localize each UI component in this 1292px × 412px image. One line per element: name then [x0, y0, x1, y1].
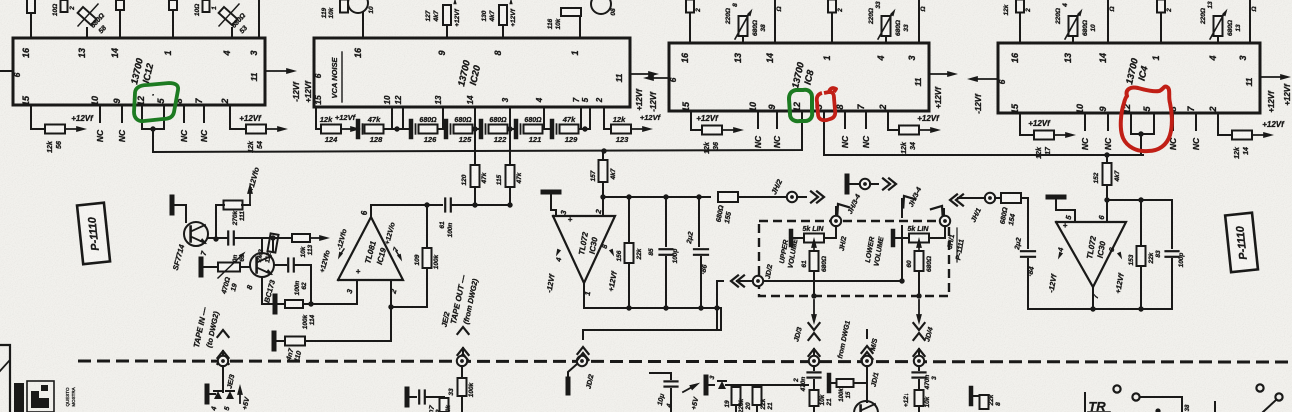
wire JD/3 drop	[811, 293, 816, 298]
label TR switch	[1084, 393, 1086, 412]
TL072R pin4 arrow -12Vf	[1056, 252, 1063, 261]
resistor 154 680R	[995, 197, 1001, 199]
wire JD/2 gnd	[568, 364, 577, 380]
trimmer 33 680R above pin4	[882, 16, 891, 36]
connector JD/2	[577, 356, 587, 366]
wire IC8 pin4 up	[885, 36, 887, 43]
wire IC12 pin16 up	[30, 12, 32, 38]
annotation red circle IC8 pin 5	[817, 88, 836, 120]
TL081 pin7 arrow +12V/o	[397, 254, 404, 263]
wire IC20 pin1 up	[579, 16, 581, 38]
connector JH/2 on box	[831, 216, 841, 226]
annotation red loop IC4 pins 12-5	[1121, 87, 1172, 152]
NC stub IC8 pin10	[757, 111, 759, 128]
wire IC20 pins7+5 down	[580, 107, 582, 129]
NC stub IC4 pin9	[1107, 113, 1109, 130]
transistor above IC20 pin16	[348, 0, 368, 13]
diode 3	[718, 381, 726, 389]
TL072R pin8 arrow +12Vf	[1117, 252, 1124, 261]
ground 110	[272, 333, 277, 349]
ground JD/2	[566, 379, 571, 393]
wire IC4 pin16 up	[1019, 12, 1021, 43]
ground mid	[704, 377, 709, 393]
ground JE/3	[205, 386, 210, 402]
transistor Q SF7714	[184, 222, 208, 246]
wire node right	[452, 204, 510, 206]
connector JH/3-4	[860, 179, 870, 189]
wire 680R155 corner	[699, 196, 710, 198]
junction dot bottom	[1155, 408, 1160, 412]
NC stub IC4 pin10	[1084, 113, 1086, 130]
arrow +12Vf IC8 pin11	[929, 73, 951, 75]
trimmer 13 680R above pin4	[1214, 16, 1223, 36]
resistor 60 680R	[918, 251, 920, 256]
NC stub IC12 pin9	[121, 105, 123, 122]
wire TL072R pin6 up	[1106, 200, 1108, 222]
capacitor + resistor 122 680R	[479, 121, 484, 137]
arrow +12Vf IC20 pin11	[630, 73, 652, 75]
switch contact c	[1256, 384, 1263, 391]
resistor 33 100k	[458, 378, 467, 396]
wire IC12 pin2 down	[230, 105, 246, 129]
resistor 56 12k	[45, 125, 65, 134]
resistor 113 10k	[292, 234, 310, 242]
resistor above IC12 pin16	[27, 0, 35, 13]
ground TL072L pin3	[543, 190, 559, 195]
wire IC20 pin2 down	[604, 107, 612, 129]
trimmer 680R 58 above pin13	[78, 7, 97, 25]
wire link to JH/3-4	[768, 280, 902, 282]
resistor 21 22k	[753, 387, 762, 405]
wire IC8 pin13 up	[742, 36, 744, 43]
wire out node	[371, 204, 442, 206]
pot 60 5k LIN lower	[891, 231, 896, 245]
drawing frame corner	[0, 345, 10, 412]
wire IC4 pin13 up	[1072, 36, 1074, 43]
connector JH/1	[985, 193, 995, 203]
diode 5	[226, 391, 234, 399]
arrow +12Vfo 113	[310, 237, 323, 239]
capacitor 184 2u2	[1027, 198, 1029, 248]
wire TL081 pin2 feedback	[390, 280, 392, 307]
switch lever	[1263, 400, 1276, 412]
diode 4	[214, 391, 222, 399]
capacitor 110 4n7	[274, 340, 283, 342]
wire 2u2 node drop	[716, 281, 718, 330]
wire IC20 pin8 up	[502, 26, 504, 38]
resistor 17 12k	[1034, 131, 1054, 140]
wire bus IC12 to IC8 pin12	[153, 111, 802, 152]
NC stub IC12 pin10	[99, 105, 101, 122]
arrow +12Vf IC12 pin11	[265, 70, 290, 72]
op-amp U TL081 IC19	[338, 217, 403, 280]
capacitor bar 8	[969, 388, 974, 404]
wire IC4 pin4 up	[1217, 36, 1219, 43]
wire rail right	[1028, 308, 1172, 310]
wire IC12 pin4 up	[231, 28, 233, 38]
resistor 112 2M2	[267, 233, 278, 252]
wire BC173 top	[261, 238, 263, 253]
op-amp U TL072 IC30 right	[1056, 222, 1126, 287]
resistor 54 12k	[246, 125, 266, 134]
wire TL072R out down	[1092, 287, 1094, 309]
IC12 pin12/5 join	[141, 105, 143, 129]
connector JD/2 on box	[753, 276, 763, 286]
trimmer 680R 53 above pin4	[219, 7, 238, 25]
wire chain	[403, 128, 411, 130]
wire TL081 out up	[370, 205, 372, 217]
arrow +12Vf 14	[1252, 134, 1267, 136]
connector JD/4	[914, 356, 924, 366]
annotation green circle IC8 pin 12	[789, 90, 812, 121]
wire JD/1 down	[866, 366, 868, 402]
capacitor 2 470n	[808, 371, 821, 373]
resistor 61 680R	[813, 251, 815, 256]
wire JE/2 down	[461, 366, 463, 377]
dash-dot signal boundary line	[78, 361, 1292, 362]
ground 470R	[199, 259, 204, 275]
dashed box P-1111	[759, 221, 949, 296]
connector JE/3	[218, 356, 228, 366]
resistor 2x 10k	[915, 390, 924, 406]
arrow +12Vf 124	[341, 128, 354, 130]
jack JH/3-4 sleeve	[845, 176, 850, 192]
wire IC12 pin1 up	[172, 10, 174, 38]
NC stub IC12 pin8	[183, 105, 185, 122]
annotation green circle IC12 pins 12-5	[134, 83, 178, 121]
connector JH/1 on box	[940, 216, 950, 226]
wire IC12 pin3 up	[258, 0, 260, 38]
resistor 15 100k	[832, 382, 836, 384]
wire input line to pin3	[311, 303, 357, 305]
capacitor bar 15	[827, 375, 832, 391]
arrow +12Vf 36	[722, 129, 737, 131]
wire JH/1 from resistor	[958, 197, 985, 199]
title block DRAWN	[14, 383, 24, 412]
capacitor 62 100n	[274, 264, 286, 266]
TL081 pin4 arrow -12Vfo	[336, 252, 343, 261]
capacitor 61 100n	[444, 199, 446, 212]
connector JD/1	[862, 356, 872, 366]
wire IC8 pin1 up	[831, 12, 833, 43]
resistor 109 100k	[426, 205, 428, 248]
arrow +12Vf pin15	[65, 128, 80, 130]
NC stub IC12 pin7	[203, 105, 205, 122]
op-amp IC12 13700 quad OTA box	[13, 38, 265, 105]
wire collector node	[215, 205, 217, 239]
resistor 120 47k	[474, 129, 476, 205]
resistor 14 12k	[1232, 131, 1252, 140]
resistor 127 4k7 above pin9	[443, 5, 451, 25]
resistor 34 12k	[899, 126, 919, 135]
pot 61 5k LIN upper	[789, 231, 794, 245]
trimmer 19 470R	[218, 263, 240, 272]
wire IC20 pin9 up	[446, 26, 448, 38]
resistor 119 10k above IC20	[340, 0, 348, 13]
ground 4n7 13	[405, 389, 410, 405]
wire 100n62 down	[310, 265, 312, 304]
wire TL072R fb node	[1107, 199, 1172, 201]
resistor 36 12k	[702, 126, 722, 135]
wire JD/4 drop	[916, 293, 921, 298]
capacitor + resistor 125 680R	[444, 121, 449, 137]
wire bottom node	[726, 384, 808, 386]
jack JE/3 chevrons	[217, 330, 228, 337]
wire JD/2 link	[763, 280, 768, 282]
wire IC20 pin15 corner	[316, 107, 322, 129]
arrow +12Vf 34	[919, 129, 934, 131]
TL072L pin4 arrow -12Vf	[554, 249, 561, 258]
wire IC4 pin1 up	[1160, 12, 1162, 43]
TL072L pin8 arrow +12Vf	[609, 249, 616, 258]
resistor 114 100k	[275, 303, 284, 305]
capacitor 85 100p	[665, 197, 667, 246]
label box P-1110 right	[1225, 213, 1258, 273]
NC stub IC8 pin7	[865, 111, 867, 128]
wire BC173 emitter down	[261, 277, 263, 304]
wire node to 10k	[264, 237, 292, 239]
wire IC4 pin15 down	[1020, 113, 1034, 135]
title block logo	[27, 381, 54, 412]
resistor 19 220k	[732, 387, 741, 405]
ground TL072R pin5	[1048, 195, 1064, 200]
arrow +12Vf pin2	[266, 128, 281, 130]
label box P-1110 left	[77, 203, 110, 264]
jack JH/1 chevrons	[956, 194, 963, 205]
arrow +12Vf IC4 pin11	[1260, 76, 1284, 78]
resistor 124 12k	[321, 125, 341, 134]
op-amp IC8 13700 quad OTA box	[669, 43, 929, 111]
wire JE/3 down	[222, 366, 224, 392]
arrow -12Vf IC4 pin6	[974, 78, 998, 80]
capacitor + resistor 121 680R	[514, 121, 519, 137]
ground SF7714	[170, 197, 175, 213]
connector JD/3	[809, 356, 819, 366]
jack JH/2 chevrons	[797, 196, 806, 198]
capacitor + resistor 129 47k	[550, 121, 555, 137]
capacitor 4 10u	[670, 373, 672, 379]
wire IC8 pin16 up	[689, 12, 691, 43]
wire IC4 pin2 down	[1218, 113, 1232, 135]
wire IC8 pin15 down	[691, 111, 702, 130]
wire IC12 pin15 down	[31, 105, 45, 129]
arrow +12Vf 17	[1054, 134, 1069, 136]
NC stub IC4 pin8	[1172, 113, 1174, 130]
wire stub bottom	[1214, 402, 1216, 412]
resistor 116 10k above pin1	[561, 8, 581, 16]
wire 4n7 node	[390, 307, 392, 341]
resistor 123 12k	[611, 125, 631, 134]
wire IC12 pin13 up	[86, 28, 88, 38]
NC stub IC8 pin9	[776, 111, 778, 128]
wire bus IC8 pin5 to IC4	[824, 111, 1143, 155]
wire IC4 pin14 up	[1107, 0, 1109, 43]
switch contact d	[1275, 393, 1282, 400]
arrow -12Vf IC8 pin6	[650, 77, 669, 79]
arrow +12Vfo 270k	[249, 190, 251, 205]
resistor 155 680R	[718, 192, 738, 202]
trimmer 10 680R above pin13	[1069, 16, 1078, 36]
op-amp IC20 13700 quad OTA box	[314, 38, 630, 107]
wire JD/3 down	[813, 366, 815, 370]
resistor 156 22k	[628, 197, 630, 243]
wire IC8 pin2 down	[888, 111, 899, 130]
transistor Q BC173	[250, 253, 274, 277]
capacitor 13 4n7	[418, 391, 420, 404]
capacitor 3 470n	[913, 371, 926, 373]
connector JE/2	[457, 356, 467, 366]
wire IC4 pin3 up	[1249, 0, 1251, 43]
capacitor 63 100n	[227, 232, 229, 245]
jack JH/3-4 chevrons	[870, 183, 878, 185]
wire IC20 pin13 down	[442, 107, 444, 129]
resistor 32 100k	[440, 398, 449, 412]
arrow +5V JE/3	[239, 391, 241, 403]
capacitor 83 100p	[1171, 200, 1173, 248]
ground 114	[273, 296, 278, 312]
wire IC20 pin14 down	[474, 107, 476, 129]
transistor Q M/S	[854, 401, 878, 412]
wire IC8 pin14 up	[774, 0, 776, 43]
resistor 115 47k	[509, 129, 511, 205]
wire TL072L fb node	[603, 196, 699, 198]
wire 2M2 to base node	[272, 238, 274, 252]
switch contact b	[1132, 393, 1139, 400]
jack JE/2 chevrons	[457, 327, 468, 334]
capacitor 186 2u2	[698, 197, 700, 246]
wire pin3 line left	[261, 303, 263, 305]
trimmer 38 680R above pin13	[739, 16, 748, 36]
wire IC4 pins12+5 join	[1130, 113, 1132, 134]
capacitor + resistor 126 680R	[409, 121, 414, 137]
wire IC20 pin16 up	[362, 13, 364, 38]
arrow +12Vf 123	[631, 128, 646, 130]
capacitor + resistor 128 47k	[356, 121, 361, 137]
arrow +5V 10u	[683, 386, 694, 392]
resistor 111 270k	[224, 201, 243, 210]
wire IC20 pins10+12 down	[391, 107, 393, 129]
connector JH/2	[787, 192, 797, 202]
wire IC20 pin4 down	[543, 107, 545, 129]
wire switch b	[1140, 397, 1182, 412]
transistor above IC20 pin1	[591, 0, 611, 14]
scan grain	[0, 0, 1, 1]
wire TL072L out down	[583, 283, 585, 308]
resistor 8 22k	[974, 395, 978, 397]
wire IC20 pin3 down	[509, 107, 511, 129]
wire JD/4 down	[918, 366, 920, 370]
resistor 22 10k	[810, 390, 819, 406]
resistor 130 4k7 above pin8	[499, 5, 507, 25]
wire IC12 pin14 up	[119, 10, 121, 38]
resistor 157 4k7	[602, 152, 604, 160]
NC stub IC4 pin7	[1195, 113, 1197, 130]
resistor 153 22k	[1140, 200, 1142, 246]
wire IC8 pin3 up	[918, 0, 920, 43]
resistor 152 4k7	[1106, 155, 1108, 162]
op-amp U TL072 IC30 left	[553, 216, 615, 283]
wire rail 308	[584, 307, 721, 309]
wire 470R to base	[240, 266, 250, 268]
wire rail drop	[583, 308, 721, 330]
op-amp IC4 13700 quad OTA box	[998, 43, 1260, 113]
switch contact a	[1113, 385, 1120, 392]
NC stub IC8 pin8	[844, 111, 846, 128]
